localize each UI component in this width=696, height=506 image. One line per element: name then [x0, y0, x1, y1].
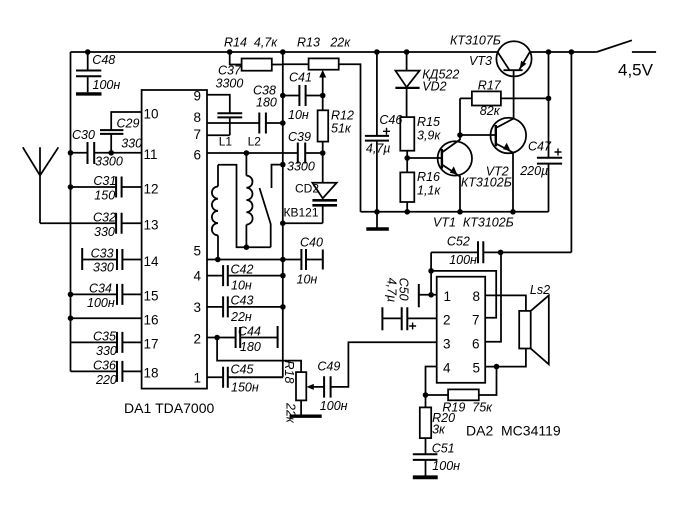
svg-text:C48: C48	[92, 53, 115, 67]
antenna WA1	[23, 147, 59, 223]
svg-text:КВ121: КВ121	[284, 206, 319, 220]
svg-text:C46: C46	[379, 113, 402, 127]
svg-text:100н: 100н	[87, 296, 115, 310]
ground under R18	[290, 415, 322, 418]
svg-text:C49: C49	[317, 360, 340, 374]
svg-text:C44: C44	[238, 324, 261, 338]
svg-text:C30: C30	[72, 128, 95, 142]
svg-text:220µ: 220µ	[519, 164, 548, 178]
speaker Ls2	[473, 283, 551, 364]
pin 9 loop wire	[193, 89, 229, 136]
resistor R20	[420, 395, 455, 454]
svg-text:180: 180	[240, 340, 261, 354]
svg-text:3,9к: 3,9к	[417, 129, 441, 143]
svg-text:4,5V: 4,5V	[618, 61, 654, 80]
svg-text:L1: L1	[219, 135, 233, 149]
svg-text:3: 3	[193, 300, 201, 315]
svg-text:C36: C36	[93, 358, 116, 372]
capacitor C29	[100, 117, 142, 153]
pin 13 / capacitor C32	[40, 210, 159, 239]
resistor R15	[400, 115, 441, 158]
svg-text:C39: C39	[288, 130, 311, 144]
capacitor C46	[365, 52, 402, 212]
pin 4 / capacitor C42	[193, 262, 282, 292]
wire pin 7 loop	[431, 271, 496, 328]
svg-text:3300: 3300	[95, 155, 123, 169]
svg-text:L2: L2	[248, 135, 262, 149]
wire top supply rail	[71, 51, 597, 53]
pin 2 / capacitor C44	[193, 324, 277, 354]
wire bottom analog rail	[361, 211, 549, 213]
svg-text:3300: 3300	[216, 77, 244, 91]
wire pin 6 to C52 node	[472, 252, 501, 351]
svg-text:9: 9	[193, 89, 201, 104]
svg-text:10н: 10н	[231, 279, 252, 293]
svg-text:8: 8	[473, 289, 481, 304]
svg-text:C47: C47	[528, 140, 552, 154]
svg-text:100н: 100н	[432, 459, 460, 473]
svg-text:22н: 22н	[230, 310, 252, 324]
svg-text:R14 4,7к: R14 4,7к	[224, 36, 278, 50]
svg-text:1: 1	[444, 289, 452, 304]
resistor R14	[224, 36, 283, 71]
transistor VT3 KT3107B	[450, 34, 532, 77]
inductor L2	[246, 135, 261, 248]
svg-text:R12: R12	[331, 109, 354, 123]
svg-text:8: 8	[193, 110, 201, 125]
svg-text:100н: 100н	[320, 399, 348, 413]
pin 7 wire	[193, 127, 229, 142]
svg-text:C43: C43	[231, 294, 254, 308]
resistor R17	[460, 78, 549, 135]
ground under C46	[366, 212, 389, 229]
svg-text:C33: C33	[91, 247, 114, 261]
svg-text:4,7µ: 4,7µ	[366, 142, 391, 156]
svg-text:5: 5	[193, 244, 201, 259]
svg-text:22к: 22к	[284, 402, 298, 424]
IC DA1 TDA7000 body	[142, 90, 207, 389]
svg-text:16: 16	[144, 313, 159, 328]
pin 12 / capacitor C31	[71, 174, 159, 203]
svg-text:1: 1	[193, 371, 201, 386]
svg-text:VT3: VT3	[469, 54, 492, 68]
pin 18 / capacitor C36	[71, 358, 159, 387]
svg-text:R13 22к: R13 22к	[297, 36, 351, 50]
pin 14 / capacitor C33	[82, 247, 159, 275]
svg-text:5: 5	[473, 361, 481, 376]
svg-text:C51: C51	[432, 442, 455, 456]
svg-text:6: 6	[193, 147, 201, 162]
svg-text:C34: C34	[89, 281, 112, 295]
wire left vertical rail	[70, 52, 72, 371]
svg-text:4: 4	[193, 269, 201, 284]
svg-text:DA2 MC34119: DA2 MC34119	[466, 423, 561, 439]
trimmer switch contact	[246, 165, 282, 248]
inductor L1	[212, 135, 247, 260]
svg-text:C29: C29	[117, 117, 140, 131]
svg-text:C31: C31	[93, 174, 116, 188]
svg-text:R17: R17	[478, 78, 502, 92]
pin 10	[111, 106, 158, 130]
resistor R19	[426, 367, 497, 415]
capacitor C41	[283, 71, 323, 123]
capacitor C50 electrolytic	[382, 278, 450, 331]
svg-text:17: 17	[144, 337, 159, 352]
pin 8 / capacitor C38	[193, 84, 282, 134]
svg-text:220: 220	[95, 373, 117, 387]
svg-text:DA1 TDA7000: DA1 TDA7000	[124, 400, 214, 416]
svg-text:150: 150	[94, 189, 115, 203]
svg-text:180: 180	[256, 96, 277, 110]
transistor VT1 KT3102B	[407, 135, 514, 230]
svg-text:6: 6	[472, 337, 480, 352]
svg-text:10н: 10н	[288, 108, 309, 122]
svg-text:14: 14	[144, 254, 160, 269]
svg-text:3300: 3300	[287, 160, 315, 174]
capacitor C48	[76, 52, 120, 92]
svg-text:100н: 100н	[93, 78, 121, 92]
wire mid vertical rail	[228, 52, 283, 377]
svg-text:330: 330	[94, 225, 115, 239]
svg-text:330: 330	[96, 344, 117, 358]
svg-text:4: 4	[443, 361, 451, 376]
ground under C51	[413, 475, 438, 479]
svg-text:C45: C45	[231, 362, 254, 376]
svg-text:3к: 3к	[432, 423, 446, 437]
capacitor C51	[413, 442, 460, 476]
pin 1 / capacitor C45	[193, 362, 282, 394]
capacitor C37	[216, 64, 244, 118]
pin 3 / capacitor C43	[193, 294, 282, 324]
svg-text:VD2: VD2	[422, 80, 446, 94]
svg-text:330: 330	[93, 261, 114, 275]
capacitor C49	[306, 342, 436, 413]
svg-text:C52: C52	[447, 235, 470, 249]
svg-text:51к: 51к	[331, 122, 352, 136]
svg-text:C40: C40	[300, 236, 323, 250]
svg-text:C32: C32	[93, 210, 116, 224]
svg-text:15: 15	[144, 289, 159, 304]
IC DA2 MC34119 body	[437, 277, 486, 383]
pin 1 stub terminal	[419, 284, 451, 307]
varicap CD2 KB121	[283, 153, 337, 223]
svg-text:R18: R18	[282, 361, 296, 384]
svg-text:R15: R15	[417, 115, 440, 129]
pin 17 / capacitor C35	[71, 329, 159, 358]
wire right vertical rail	[570, 52, 572, 252]
capacitor C52	[431, 235, 571, 267]
pin 15 / capacitor C34	[71, 281, 159, 310]
pin 5 wire / capacitor C40	[193, 236, 322, 287]
wire pin 5	[473, 349, 526, 376]
wire pin 4	[426, 361, 452, 396]
svg-text:10н: 10н	[297, 273, 318, 287]
svg-text:3: 3	[443, 337, 451, 352]
svg-text:КТ3107Б: КТ3107Б	[450, 34, 501, 48]
diode VD2 KD522	[395, 52, 459, 117]
svg-text:C41: C41	[289, 71, 312, 85]
svg-text:7: 7	[472, 313, 480, 328]
svg-text:C37: C37	[218, 64, 242, 78]
capacitor C47	[519, 52, 562, 212]
resistor R13 potentiometer	[283, 36, 361, 212]
svg-text:18: 18	[144, 366, 159, 381]
svg-text:КТ3102Б: КТ3102Б	[461, 176, 512, 190]
svg-text:82к: 82к	[480, 104, 501, 118]
pin 6 wire / capacitor C39	[193, 130, 322, 174]
svg-text:4,7µ: 4,7µ	[385, 278, 399, 303]
ground under C48	[76, 92, 102, 95]
resistor R16	[400, 158, 441, 212]
svg-text:2: 2	[193, 332, 201, 347]
svg-text:13: 13	[144, 218, 159, 233]
svg-text:VT1 КТ3102Б: VT1 КТ3102Б	[433, 216, 514, 230]
svg-text:330: 330	[121, 137, 142, 151]
svg-text:C35: C35	[93, 329, 116, 343]
switch SA power	[597, 40, 656, 52]
resistor R12	[318, 96, 354, 154]
svg-text:R16: R16	[417, 170, 440, 184]
svg-text:100н: 100н	[449, 253, 477, 267]
svg-text:7: 7	[193, 127, 201, 142]
resistor R18 potentiometer	[217, 338, 306, 424]
wire pin1-pin7 vertical link	[430, 252, 432, 294]
svg-text:11: 11	[144, 147, 158, 162]
svg-text:10: 10	[144, 106, 159, 121]
svg-text:150н: 150н	[231, 381, 259, 395]
svg-text:12: 12	[144, 181, 159, 196]
pin 16 wire	[71, 313, 159, 328]
transistor VT2 KT3102B	[460, 70, 526, 212]
svg-text:Ls2: Ls2	[530, 283, 550, 297]
pin 11 / capacitor C30	[71, 128, 158, 169]
svg-text:2: 2	[443, 313, 451, 328]
svg-text:CD2: CD2	[295, 182, 319, 196]
svg-text:1,1к: 1,1к	[417, 184, 441, 198]
svg-text:C42: C42	[231, 262, 254, 276]
